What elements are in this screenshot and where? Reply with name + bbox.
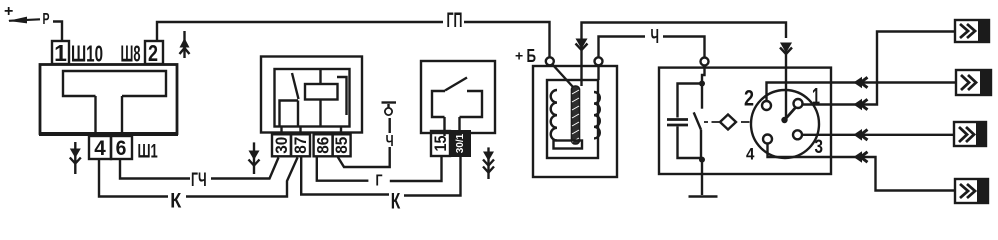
node plus supply label (4, 3, 13, 20)
connector X1 single pin socket (382, 103, 397, 116)
rotor center and arm (781, 68, 796, 124)
svg-text:3: 3 (815, 136, 824, 158)
coil inner frame (547, 80, 598, 158)
HV mark wire 3 (854, 129, 868, 141)
relay K1 inner case (275, 69, 350, 127)
HV mark wire 4 (854, 151, 868, 163)
net label K left (170, 190, 181, 213)
terminal 2 of U1 (145, 40, 163, 66)
net label GP (447, 9, 463, 32)
ignition switch S1 contact bar (432, 91, 482, 136)
relay K1 contact 30-87 (280, 73, 299, 126)
HV mark wire 1 (854, 99, 868, 111)
coil inner loop bottom (554, 141, 583, 149)
wire GCh from terminal 6 to relay 30 (120, 158, 279, 179)
cap electrode 1 (794, 99, 803, 108)
svg-text:30: 30 (272, 137, 291, 154)
coil secondary winding (594, 92, 600, 138)
cam diamond (720, 115, 736, 130)
ground arrow at U1 (70, 142, 81, 174)
wire P feed arrow to battery (8, 17, 62, 41)
breaker points contact (694, 84, 702, 160)
svg-text:К: К (391, 189, 401, 214)
relay pin 30 (272, 134, 291, 156)
coil core (572, 86, 580, 144)
mounting block U1 body (39, 65, 178, 135)
ground arrow at ignition switch (483, 147, 494, 179)
svg-text:Ч: Ч (386, 133, 394, 150)
net label +B (515, 46, 536, 66)
coil primary winding (551, 90, 557, 140)
spark plug 4 (955, 179, 988, 203)
net label Ch at connector (386, 133, 394, 150)
svg-text:1: 1 (54, 40, 67, 66)
distributor ground lead (689, 160, 718, 197)
distributor body (659, 68, 831, 174)
relay pin 86 (314, 134, 333, 156)
cap electrode 4 (763, 135, 772, 144)
coil terminal to breaker (595, 57, 603, 65)
svg-text:2: 2 (744, 86, 754, 111)
svg-text:ГП: ГП (447, 9, 463, 32)
svg-text:+: + (4, 3, 13, 20)
coil internal lead to inner frame (597, 65, 599, 80)
svg-text:85: 85 (332, 137, 351, 154)
net label GCh (191, 170, 207, 191)
ignition switch S1 blade (445, 78, 467, 91)
svg-text:К: К (170, 190, 181, 213)
svg-text:15: 15 (431, 136, 450, 152)
node junction top inside distributor (699, 66, 705, 87)
ignition switch pin 15 (431, 131, 450, 156)
connector label Sh10 (71, 41, 103, 67)
cap electrode 3 (793, 130, 802, 139)
ignition switch S1 body (421, 61, 495, 133)
coil internal lead from +B (553, 65, 574, 88)
svg-text:ГЧ: ГЧ (191, 170, 207, 191)
svg-text:86: 86 (314, 137, 333, 154)
wire Ch from relay 85 to connector X1 (338, 118, 390, 167)
terminal 6 of U1 (111, 136, 132, 160)
terminal 1 of U1 (52, 40, 69, 66)
HV mark at coil (576, 39, 588, 87)
svg-text:30/1: 30/1 (455, 133, 466, 153)
wire G from relay 86 to ignition switch 15 (317, 157, 442, 182)
spark plug 3 (954, 122, 986, 146)
svg-text:Ш10: Ш10 (71, 41, 103, 67)
svg-text:Б: Б (527, 46, 537, 66)
svg-text:Ш8: Ш8 (121, 41, 141, 67)
relay K1 coil (305, 69, 347, 126)
svg-text:2: 2 (148, 40, 158, 66)
net label Ch (651, 26, 660, 48)
svg-text:Ш1: Ш1 (138, 141, 159, 162)
connector label Sh1 (138, 141, 159, 162)
cam dash-dot axis (704, 121, 750, 123)
svg-text:Г: Г (376, 173, 383, 190)
distributor input terminal (701, 58, 709, 66)
spark plug 2 (956, 70, 991, 95)
wire Ch coil to distributor (599, 37, 705, 58)
wire K from relay 87 to ignition switch 30/1 (301, 157, 460, 196)
net label K right (391, 189, 401, 214)
svg-text:Ч: Ч (651, 26, 660, 48)
wire electrode 2 to plug 2 (767, 83, 957, 102)
distributor cap circle (751, 90, 819, 158)
net label P (43, 11, 50, 28)
ignition coil T1 body (533, 66, 617, 177)
label electrode 3 (815, 136, 824, 158)
net label G (376, 173, 383, 190)
relay pin 85 (332, 134, 351, 156)
coil terminal +B (546, 57, 554, 65)
svg-text:4: 4 (746, 145, 755, 164)
HV mark wire 2 (854, 77, 868, 89)
wire electrode 4 to plug 4 (768, 144, 956, 191)
svg-text:87: 87 (291, 137, 310, 154)
relay pin 87 (291, 134, 310, 156)
connector label Sh8 (121, 41, 141, 67)
svg-text:4: 4 (94, 137, 106, 160)
label electrode 1 (812, 83, 820, 109)
relay K1 body (261, 57, 362, 133)
svg-text:6: 6 (116, 137, 127, 160)
node junction bottom of breaker (699, 157, 705, 163)
label electrode 4 (746, 145, 755, 164)
capacitor C1 branch (667, 84, 702, 159)
svg-text:+: + (515, 48, 523, 64)
HV mark at distributor (780, 43, 792, 68)
wire electrode 3 to plug 3 (802, 134, 954, 136)
high voltage wire coil to distributor (582, 23, 787, 50)
wire GP from terminal 2 to ignition coil (157, 22, 550, 57)
ignition switch pin 30/1 (450, 130, 471, 157)
svg-text:Р: Р (43, 11, 50, 28)
spark plug 1 (955, 20, 989, 42)
mounting block internal bus T-bar (63, 71, 166, 136)
ground arrow at relay (249, 142, 260, 174)
cap electrode 2 (762, 101, 771, 110)
relay pin stubs (282, 126, 342, 134)
wire K from terminal 4 to relay 87 (99, 158, 298, 197)
terminal 4 of U1 (89, 136, 111, 160)
wire electrode 1 to plug 1 (803, 32, 957, 105)
label electrode 2 (744, 86, 754, 111)
arrow up to other circuit near terminal 2 (180, 31, 190, 58)
